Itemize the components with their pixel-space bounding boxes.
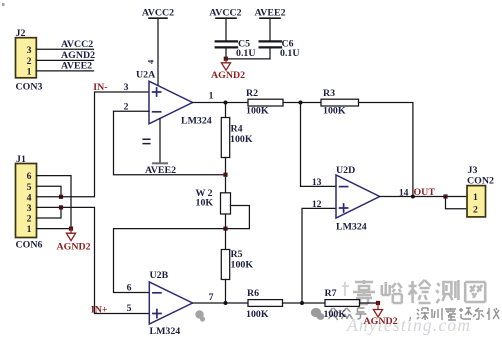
svg-text:3: 3 bbox=[124, 82, 129, 93]
svg-text:U2D: U2D bbox=[336, 165, 355, 176]
watermark small text "yi" (clipped) bbox=[487, 308, 499, 320]
svg-text:100K: 100K bbox=[231, 260, 254, 271]
wire U2D pin13 from R2/R3 junction bbox=[301, 103, 337, 187]
svg-text:2: 2 bbox=[27, 214, 32, 225]
resistor R4 bbox=[221, 118, 229, 158]
wire W2 wiper loop bbox=[226, 206, 250, 229]
wire U2A pin11 to AVEE2 bbox=[159, 119, 161, 164]
wire J2 pin2 net stub bbox=[36, 59, 93, 61]
watermark small text "gong" bbox=[329, 308, 339, 320]
svg-text:LM324: LM324 bbox=[150, 326, 181, 337]
watermark small text "zhen" bbox=[432, 308, 442, 320]
svg-text:10K: 10K bbox=[196, 197, 214, 208]
junction J1 pin5/pin4 bbox=[59, 195, 63, 199]
svg-text:AVEE2: AVEE2 bbox=[145, 165, 176, 176]
svg-text:AVCC2: AVCC2 bbox=[142, 8, 174, 19]
resistor R7 bbox=[325, 300, 360, 307]
svg-text:100K: 100K bbox=[246, 309, 269, 320]
svg-text:LM324: LM324 bbox=[336, 222, 367, 233]
junction U2A output / R4 bbox=[224, 101, 228, 105]
svg-text:100K: 100K bbox=[324, 309, 347, 320]
watermark big text "jian" bbox=[409, 280, 431, 303]
svg-text:U2B: U2B bbox=[150, 270, 169, 281]
resistor R3 bbox=[321, 99, 359, 106]
junction J3 branch bbox=[443, 194, 447, 198]
U2A minus input mark bbox=[153, 111, 161, 113]
watermark partial char edge bbox=[342, 282, 349, 296]
svg-text:100K: 100K bbox=[246, 105, 269, 116]
svg-text:R4: R4 bbox=[231, 124, 243, 135]
U2A plus input mark bbox=[153, 88, 161, 96]
junction W2 bottom node bbox=[223, 227, 227, 231]
watermark big text "yu" bbox=[382, 282, 402, 303]
connector J1 bbox=[16, 164, 37, 238]
watermark small text "zhong" bbox=[342, 308, 353, 319]
svg-text:J3: J3 bbox=[468, 165, 478, 176]
wire J2 pin1 net stub bbox=[36, 70, 93, 72]
svg-text:AVCC2: AVCC2 bbox=[61, 39, 93, 50]
svg-text:13: 13 bbox=[312, 177, 322, 188]
watermark small text "shen" bbox=[417, 308, 429, 320]
svg-text:R7: R7 bbox=[325, 288, 337, 299]
wire AVEE2 to C6 bbox=[269, 18, 271, 40]
resistor R5 bbox=[221, 250, 229, 280]
svg-text:IN+: IN+ bbox=[91, 304, 108, 315]
svg-text:6: 6 bbox=[27, 171, 32, 182]
wire J1 pin3 IN+ run to U2B pin5 bbox=[37, 207, 150, 313]
wire C6 bottom to ground node bbox=[269, 49, 271, 59]
ground AGND2 (R7) bbox=[377, 303, 379, 310]
wire J1 pin4 IN- run to U2A pin3 bbox=[37, 92, 150, 197]
wire R2 to R3 bbox=[283, 102, 321, 104]
svg-text:3: 3 bbox=[27, 203, 32, 214]
svg-text:2: 2 bbox=[473, 204, 478, 215]
svg-text:6: 6 bbox=[127, 282, 132, 293]
op-amp U2A bbox=[149, 81, 193, 124]
wire AVCC2 to U2A pin 4 bbox=[157, 18, 159, 87]
watermark small comma bbox=[409, 317, 410, 321]
ground AGND2 (decoupling) bbox=[225, 59, 227, 63]
svg-text:AGND2: AGND2 bbox=[364, 316, 398, 327]
svg-text:0.1U: 0.1U bbox=[236, 48, 255, 59]
junction J1 pin3/pin2 bbox=[59, 205, 63, 209]
watermark small text "da" bbox=[459, 308, 472, 319]
wire R4 to node bbox=[225, 158, 227, 193]
wire J3 pin2 branch bbox=[446, 197, 468, 209]
svg-text:CON6: CON6 bbox=[16, 240, 43, 251]
resistor R2 bbox=[248, 99, 283, 106]
wire U2D pin12 from R6/R7 junction bbox=[302, 208, 336, 303]
svg-text:R6: R6 bbox=[247, 288, 259, 299]
svg-text:AVEE2: AVEE2 bbox=[61, 60, 92, 71]
wire W2 bottom bbox=[225, 214, 227, 250]
wire R5 to U2B output bbox=[225, 280, 227, 304]
svg-text:0.1U: 0.1U bbox=[280, 48, 299, 59]
wire U2A feedback down-run bbox=[114, 111, 226, 174]
svg-text:LM324: LM324 bbox=[181, 116, 212, 127]
junction C5 ground bbox=[224, 57, 228, 61]
connector J3 bbox=[467, 186, 486, 217]
watermark big text "jia" bbox=[353, 280, 375, 304]
svg-text:IN-: IN- bbox=[93, 82, 107, 93]
junction R2/R3 to U2D pin13 bbox=[299, 101, 303, 105]
junction R7 ground corner bbox=[376, 301, 380, 305]
svg-text:5: 5 bbox=[127, 303, 132, 314]
svg-text:OUT: OUT bbox=[414, 187, 436, 198]
connector J2 bbox=[16, 38, 37, 78]
wire U2A output rail bbox=[193, 102, 249, 104]
wire C5 bottom to ground node bbox=[225, 49, 227, 59]
svg-text:100K: 100K bbox=[323, 105, 346, 116]
power symbol AVEE2 (U2A) bbox=[153, 162, 167, 164]
capacitor C6 bbox=[260, 40, 281, 42]
svg-text:AGND2: AGND2 bbox=[61, 50, 95, 61]
watermark wechat icon bbox=[311, 308, 325, 320]
U2D plus input mark bbox=[340, 204, 348, 212]
wire J1 pin2 rise to pin3 net bbox=[37, 207, 62, 218]
svg-text:R5: R5 bbox=[231, 249, 243, 260]
svg-text:1: 1 bbox=[473, 192, 478, 203]
ground AGND2 (J1) bbox=[70, 229, 72, 234]
wire J1 pin1 to ground rail bbox=[37, 228, 72, 230]
op-amp U2D bbox=[336, 175, 380, 218]
svg-text:100K: 100K bbox=[230, 134, 253, 145]
svg-text:R2: R2 bbox=[246, 88, 258, 99]
U2D minus input mark bbox=[340, 186, 348, 188]
svg-text:5: 5 bbox=[27, 182, 32, 193]
junction R5/U2B output bbox=[224, 301, 228, 305]
svg-text:2: 2 bbox=[27, 56, 32, 67]
wire U2A pin2 bbox=[114, 110, 150, 112]
watermark small text "er" bbox=[473, 308, 484, 319]
potentiometer W2 bbox=[221, 193, 231, 214]
watermark big text "ce" bbox=[436, 280, 458, 303]
svg-text:1: 1 bbox=[209, 91, 214, 102]
wire R6 to R7 bbox=[283, 302, 326, 304]
wire U2D output to J3 bbox=[380, 196, 467, 198]
wire rail to R4 bbox=[225, 103, 227, 118]
svg-text:AVCC2: AVCC2 bbox=[209, 8, 241, 19]
U2B plus input mark bbox=[153, 310, 161, 318]
junction feedback/output bbox=[411, 195, 415, 199]
wire R3 feedback to U2D output bbox=[359, 103, 413, 197]
junction J1 ground bbox=[69, 227, 73, 231]
svg-text:U2A: U2A bbox=[136, 70, 156, 81]
svg-text:7: 7 bbox=[209, 292, 214, 303]
U2A pin 11 number bbox=[143, 139, 150, 143]
wire C5/C6 ground link bbox=[226, 58, 270, 60]
watermark small icon left bbox=[195, 310, 205, 321]
op-amp U2B bbox=[149, 282, 192, 324]
watermark small text "hao" bbox=[356, 308, 367, 319]
wire AVCC2 to C5 bbox=[225, 18, 227, 40]
svg-text:AGND2: AGND2 bbox=[211, 70, 245, 81]
U2B minus input mark bbox=[153, 292, 161, 294]
svg-text:CON3: CON3 bbox=[16, 82, 43, 93]
svg-text:3: 3 bbox=[27, 45, 32, 56]
junction R4/W2/U2A-feedback node bbox=[223, 173, 227, 177]
wire U2B output bbox=[193, 302, 249, 304]
junction R6/R7 to U2D pin12 bbox=[300, 301, 304, 305]
page corner speck bbox=[2, 3, 5, 6]
wire R7 to ground bbox=[360, 302, 379, 304]
wire J1 pin6 to ground rail bbox=[37, 176, 72, 229]
svg-text:1: 1 bbox=[27, 224, 32, 235]
resistor R6 bbox=[248, 300, 283, 307]
svg-text:4: 4 bbox=[27, 192, 32, 203]
capacitor C5 bbox=[216, 40, 237, 42]
wire node to U2B pin6 bbox=[114, 229, 226, 293]
svg-text:R3: R3 bbox=[323, 88, 335, 99]
watermark big text "wang" bbox=[465, 282, 485, 302]
watermark small text "huo" bbox=[445, 308, 456, 320]
wire J2 pin3 net stub bbox=[36, 48, 93, 50]
svg-text:AVEE2: AVEE2 bbox=[254, 8, 285, 19]
svg-text:1: 1 bbox=[27, 67, 32, 78]
svg-text:AGND2: AGND2 bbox=[57, 242, 91, 253]
wire J1 pin5 drop to pin4 net bbox=[37, 186, 62, 197]
svg-text:2: 2 bbox=[124, 101, 129, 112]
svg-text:12: 12 bbox=[312, 199, 322, 210]
